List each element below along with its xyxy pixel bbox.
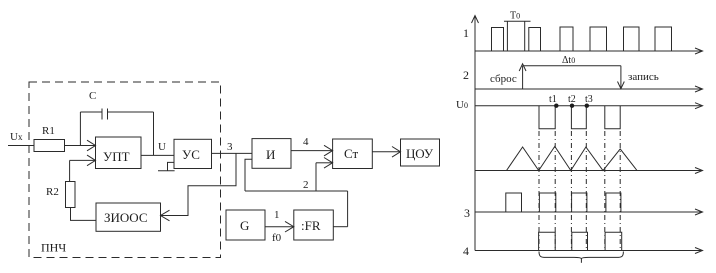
wire R1 to УПТ	[65, 145, 96, 147]
wire УПТ to УС node U	[141, 154, 174, 156]
ground symbol at УС	[168, 162, 175, 170]
wire И to Ст net 4	[291, 150, 332, 152]
wire input Ux to R1	[8, 145, 34, 147]
svg-text:C: C	[89, 90, 96, 102]
svg-text:сброс: сброс	[490, 73, 517, 85]
U0 pulse C	[605, 106, 620, 129]
row 1 pulse p7	[655, 27, 672, 51]
block И	[252, 139, 291, 169]
svg-text:1: 1	[463, 26, 469, 40]
svg-text:Т0: Т0	[510, 11, 520, 22]
row 1 pulse p2 tall	[507, 21, 524, 51]
dashed box ПНЧ	[29, 82, 221, 258]
svg-text:U0: U0	[456, 99, 468, 111]
svg-text:УС: УС	[182, 147, 200, 162]
T0 measure line	[504, 20, 531, 22]
row 3 pulse p1	[539, 193, 555, 212]
feedback wire to ЗИООС	[161, 153, 237, 215]
timing vertical axis	[474, 16, 476, 251]
block G	[226, 210, 265, 240]
row 1 pulse p1	[492, 28, 504, 52]
svg-text:R1: R1	[42, 125, 55, 137]
dashed timing lines	[538, 131, 540, 251]
block ЦОУ	[401, 139, 440, 166]
row 4 pulse p1	[539, 232, 556, 250]
block УС	[174, 139, 212, 168]
row 1 axis	[475, 50, 702, 52]
svg-text:ПНЧ: ПНЧ	[41, 241, 66, 255]
svg-text:ЗИООС: ЗИООС	[104, 210, 148, 225]
brace under row 4	[539, 252, 623, 259]
row 3 pulse p3	[606, 193, 621, 212]
svg-text:G: G	[240, 218, 249, 233]
svg-text::FR: :FR	[301, 218, 321, 233]
svg-text:Δt0: Δt0	[562, 55, 575, 66]
node t2 dot	[570, 104, 574, 108]
node t3 dot	[585, 104, 589, 108]
block Ст	[333, 139, 373, 169]
svg-text:4: 4	[463, 244, 469, 258]
row 1 pulse p6	[624, 27, 640, 51]
block :FR	[294, 210, 334, 240]
row U0 axis	[475, 105, 702, 107]
row 4 axis	[475, 250, 702, 252]
row 3 axis	[475, 211, 702, 213]
svg-text:Ст: Ст	[344, 146, 358, 161]
wire junction up to capacitor	[79, 112, 81, 146]
wire R2 to ЗИООС	[71, 208, 97, 221]
svg-text:3: 3	[464, 206, 470, 220]
row 3 pulse p0	[506, 193, 522, 212]
svg-text:1: 1	[274, 209, 280, 221]
svg-text:U: U	[158, 141, 166, 153]
svg-text:И: И	[266, 147, 275, 162]
block УПТ	[96, 137, 142, 169]
node t1 dot	[554, 104, 558, 108]
block ЗИООС	[96, 203, 161, 231]
wire Ст to ЦОУ	[372, 151, 400, 153]
resistor R2	[66, 182, 76, 208]
svg-text:2: 2	[303, 179, 309, 191]
net 2 wires	[316, 162, 332, 164]
svg-text:f0: f0	[272, 232, 282, 244]
wire УС to И node 3	[212, 152, 253, 154]
row 1 pulse p5	[590, 27, 607, 51]
svg-text:Ux: Ux	[10, 131, 23, 143]
wire :FR to net 2	[333, 226, 347, 228]
triangle row axis	[475, 170, 702, 172]
row 1 pulse p4	[560, 27, 573, 51]
svg-text:4: 4	[303, 136, 309, 148]
U0 pulse B	[571, 106, 586, 129]
row 4 pulse p2	[572, 232, 588, 250]
svg-text:3: 3	[227, 141, 233, 153]
resistor R1	[34, 140, 65, 152]
svg-text:2: 2	[463, 68, 469, 82]
svg-text:t1: t1	[549, 94, 557, 105]
svg-text:ЦОУ: ЦОУ	[406, 146, 434, 161]
svg-text:t2: t2	[568, 94, 576, 105]
wire R2 to УПТ lower input	[70, 159, 95, 161]
svg-text:УПТ: УПТ	[103, 149, 130, 164]
U0 pulse A	[539, 106, 555, 129]
wire G to :FR net 1 f0	[265, 226, 293, 228]
row 2 pulse сброс/запись	[522, 66, 524, 89]
svg-text:запись: запись	[628, 71, 659, 83]
svg-text:t3: t3	[585, 94, 593, 105]
svg-text:R2: R2	[46, 186, 59, 198]
row 2 axis	[475, 88, 702, 90]
row 3 pulse p2	[572, 193, 587, 212]
row 4 pulse p3	[605, 232, 622, 250]
triangle waveform	[507, 146, 638, 170]
row 1 pulse p3	[529, 28, 541, 52]
